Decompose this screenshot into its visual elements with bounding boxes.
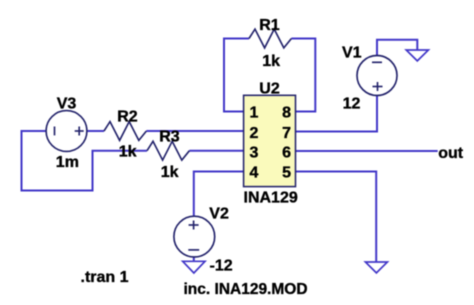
svg-text:R1: R1 <box>259 17 280 34</box>
svg-text:1: 1 <box>250 105 259 122</box>
svg-text:R3: R3 <box>159 129 180 146</box>
svg-text:5: 5 <box>282 165 291 182</box>
svg-text:7: 7 <box>282 125 291 142</box>
svg-text:V1: V1 <box>342 44 362 61</box>
svg-text:6: 6 <box>282 145 291 162</box>
svg-text:.tran 1: .tran 1 <box>81 269 129 286</box>
svg-text:4: 4 <box>250 165 259 182</box>
svg-text:-12: -12 <box>210 258 233 275</box>
svg-text:R2: R2 <box>117 108 138 125</box>
svg-text:2: 2 <box>250 125 259 142</box>
svg-text:8: 8 <box>282 105 291 122</box>
svg-text:1k: 1k <box>119 143 137 160</box>
svg-text:out: out <box>438 145 464 162</box>
svg-text:INA129: INA129 <box>244 189 298 206</box>
svg-text:V2: V2 <box>209 205 229 222</box>
svg-text:12: 12 <box>343 95 361 112</box>
svg-text:V3: V3 <box>57 96 77 113</box>
svg-text:1k: 1k <box>161 164 179 181</box>
svg-text:1k: 1k <box>262 53 280 70</box>
svg-text:inc. INA129.MOD: inc. INA129.MOD <box>184 281 308 298</box>
svg-text:1m: 1m <box>56 154 79 171</box>
svg-text:U2: U2 <box>259 80 280 97</box>
svg-text:3: 3 <box>250 145 259 162</box>
